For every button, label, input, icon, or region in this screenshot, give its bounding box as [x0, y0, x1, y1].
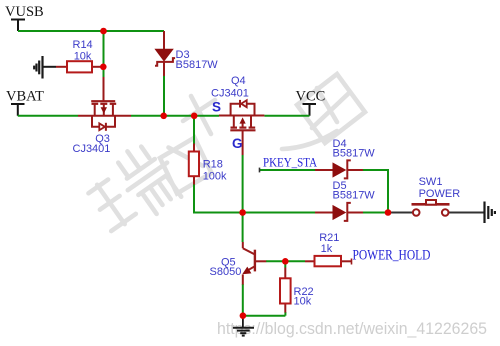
- svg-text:VCC: VCC: [296, 89, 326, 105]
- power port VUSB: [5, 4, 44, 31]
- junction D4 / D5 cathode net / SW1: [385, 209, 392, 216]
- junction Q5 base / R21 / R22: [282, 258, 289, 265]
- wire rail right to VCC: [264, 115, 309, 117]
- wire D4 drop: [387, 170, 389, 213]
- diode D5: [315, 180, 375, 221]
- transistor Q4 (PMOS flipped): [211, 75, 264, 155]
- watermark diagonal chars: [79, 74, 365, 241]
- svg-text:B5817W: B5817W: [333, 189, 376, 201]
- net label PKEY_STA: [260, 154, 318, 172]
- wire VBAT rail left: [18, 115, 78, 117]
- junction VUSB rail / gate branch: [100, 28, 107, 35]
- svg-text:B5817W: B5817W: [176, 59, 219, 71]
- svg-text:POWER_HOLD: POWER_HOLD: [353, 247, 431, 263]
- wire Q5 emitter: [242, 284, 244, 316]
- resistor R18: [189, 144, 227, 185]
- svg-text:1k: 1k: [321, 243, 333, 255]
- wire Q5 base: [266, 260, 285, 262]
- junction Q4 gate / R18 / Q5 collector / D5 anode: [239, 209, 246, 216]
- svg-text:S8050: S8050: [210, 266, 242, 278]
- diode D3: [155, 31, 218, 76]
- svg-text:SW1: SW1: [419, 176, 443, 188]
- svg-text:10k: 10k: [294, 295, 312, 307]
- svg-text:POWER: POWER: [419, 188, 461, 200]
- wire R18 top: [193, 116, 195, 144]
- char2: [160, 96, 215, 194]
- svg-text:VUSB: VUSB: [5, 4, 44, 20]
- wire gate branch upper: [103, 31, 105, 77]
- wire Q4 gate lower: [242, 155, 244, 213]
- wire R18 bottom: [193, 185, 195, 214]
- svg-text:G: G: [232, 136, 243, 151]
- svg-text:R18: R18: [203, 158, 223, 170]
- transistor Q3 (PMOS): [73, 77, 132, 155]
- ground left (at R14): [34, 56, 56, 79]
- char3: [282, 74, 365, 149]
- svg-text:CJ3401: CJ3401: [73, 143, 111, 155]
- resistor R14: [56, 39, 104, 72]
- svg-text:https://blog.csdn.net/weixin_4: https://blog.csdn.net/weixin_41226265: [217, 319, 487, 338]
- resistor R22: [280, 268, 314, 313]
- power port VBAT: [6, 89, 44, 116]
- wire rail mid: [131, 115, 219, 117]
- wire D5 out: [363, 212, 389, 214]
- wire PKEY_STA: [260, 169, 316, 171]
- power port VCC: [296, 89, 326, 116]
- junction D3 cathode / VBAT rail: [160, 113, 167, 120]
- junction VBAT rail / R18: [191, 113, 198, 120]
- junction R14 / Q3 gate: [100, 64, 107, 71]
- wire R21 left: [285, 260, 305, 262]
- wire Q5 collector: [242, 213, 244, 243]
- wire VUSB top rail: [18, 30, 164, 32]
- svg-text:PKEY_STA: PKEY_STA: [263, 154, 318, 169]
- svg-text:R14: R14: [73, 39, 93, 51]
- junction Q5 emitter / R22 / ground: [240, 312, 247, 319]
- svg-text:VBAT: VBAT: [6, 89, 44, 105]
- wire R22 bottom elbow: [284, 312, 286, 316]
- char1: [79, 136, 188, 240]
- svg-text:10k: 10k: [74, 50, 92, 62]
- transistor Q5 (NPN): [210, 242, 267, 285]
- wire D4 out: [363, 169, 389, 171]
- resistor R21: [305, 232, 352, 266]
- svg-text:CJ3401: CJ3401: [211, 87, 249, 99]
- svg-text:B5817W: B5817W: [333, 147, 376, 159]
- ground bottom (at Q5 emitter): [233, 316, 254, 336]
- wire bottom rail: [193, 212, 315, 214]
- wire bottom left rail: [243, 315, 286, 317]
- svg-text:Q4: Q4: [231, 75, 246, 87]
- svg-text:100k: 100k: [203, 170, 227, 182]
- svg-text:S: S: [212, 100, 221, 115]
- wire D3 cathode to rail: [163, 76, 165, 116]
- diode D4: [315, 138, 375, 178]
- wire R22 top stub: [284, 261, 286, 267]
- switch SW1: [389, 176, 485, 216]
- ground right (at SW1): [485, 202, 495, 224]
